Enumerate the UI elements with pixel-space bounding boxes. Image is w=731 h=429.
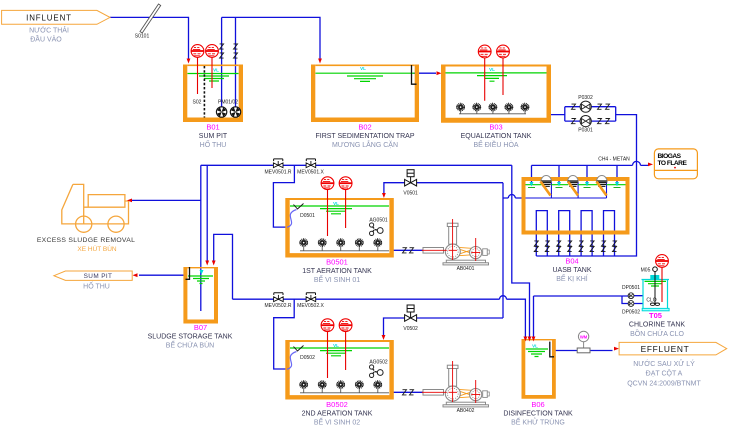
svg-text:BỂ KỊ KHÍ: BỂ KỊ KHÍ — [556, 274, 588, 283]
svg-text:MƯƠNG LẮNG CẶN: MƯƠNG LẮNG CẶN — [332, 140, 398, 149]
svg-text:T05: T05 — [649, 311, 662, 320]
svg-text:TO FLARE: TO FLARE — [658, 160, 688, 167]
svg-text:EFFLUENT: EFFLUENT — [641, 344, 690, 354]
svg-text:B04: B04 — [565, 257, 578, 266]
svg-text:BỂ CHỨA BÙN: BỂ CHỨA BÙN — [166, 341, 214, 350]
svg-text:P0302: P0302 — [578, 95, 593, 101]
svg-text:CH4 - METAN: CH4 - METAN — [598, 157, 630, 163]
svg-text:CHLORINE TANK: CHLORINE TANK — [629, 322, 685, 329]
svg-text:B01: B01 — [206, 123, 219, 132]
svg-text:CLO: CLO — [646, 298, 656, 304]
svg-text:B0502: B0502 — [326, 400, 348, 409]
svg-text:AG0502: AG0502 — [369, 360, 388, 366]
svg-text:B0501: B0501 — [326, 258, 348, 267]
svg-text:S02: S02 — [193, 100, 202, 106]
svg-text:AB0401: AB0401 — [457, 266, 475, 272]
svg-text:PM01/02: PM01/02 — [218, 100, 238, 106]
svg-text:ĐẦU VÀO: ĐẦU VÀO — [30, 34, 62, 44]
svg-text:VL: VL — [360, 66, 366, 71]
svg-text:DP0502: DP0502 — [622, 310, 640, 316]
svg-text:M05: M05 — [641, 268, 651, 274]
svg-text:AB0402: AB0402 — [457, 408, 475, 414]
svg-text:VL: VL — [213, 68, 219, 73]
svg-text:VL: VL — [333, 201, 339, 206]
svg-text:NƯỚC THẢI: NƯỚC THẢI — [29, 26, 69, 35]
svg-text:B03: B03 — [489, 123, 502, 132]
svg-text:BIOGAS: BIOGAS — [658, 153, 682, 160]
svg-text:BỒN CHỨA CLO: BỒN CHỨA CLO — [630, 328, 684, 338]
svg-text:MEV0502.X: MEV0502.X — [297, 303, 324, 309]
svg-text:S0101: S0101 — [135, 34, 150, 40]
svg-text:B06: B06 — [531, 400, 544, 409]
svg-text:ĐẠT CỘT A: ĐẠT CỘT A — [646, 369, 683, 378]
svg-text:EXCESS SLUDGE REMOVAL: EXCESS SLUDGE REMOVAL — [37, 237, 135, 244]
svg-text:DISINFECTION TANK: DISINFECTION TANK — [503, 411, 573, 418]
svg-text:EQUALIZATION TANK: EQUALIZATION TANK — [461, 133, 532, 140]
svg-text:NƯỚC SAU XỬ LÝ: NƯỚC SAU XỬ LÝ — [633, 359, 695, 368]
svg-text:BỂ VI SINH 02: BỂ VI SINH 02 — [314, 418, 360, 427]
svg-text:HỐ THU: HỐ THU — [200, 139, 227, 149]
svg-text:D0502: D0502 — [300, 355, 315, 361]
svg-text:V0502: V0502 — [403, 326, 418, 332]
svg-text:2ND AERATION TANK: 2ND AERATION TANK — [302, 411, 373, 418]
svg-text:MEV0501.R: MEV0501.R — [265, 169, 292, 175]
svg-text:INFLUENT: INFLUENT — [26, 13, 72, 22]
svg-text:MEV0501.X: MEV0501.X — [297, 169, 324, 175]
svg-text:BỂ KHỬ TRÙNG: BỂ KHỬ TRÙNG — [511, 418, 565, 427]
svg-text:BỂ ĐIỀU HÒA: BỂ ĐIỀU HÒA — [473, 139, 518, 149]
svg-text:SUM PIT: SUM PIT — [199, 133, 228, 140]
svg-text:DP0501: DP0501 — [622, 285, 640, 291]
svg-text:MEV0502.R: MEV0502.R — [265, 303, 292, 309]
svg-text:HỐ THU: HỐ THU — [83, 281, 110, 291]
svg-text:B07: B07 — [194, 323, 207, 332]
svg-text:AG0501: AG0501 — [369, 218, 388, 224]
svg-text:QCVN 24:2009/BTNMT: QCVN 24:2009/BTNMT — [627, 381, 701, 388]
svg-text:VL: VL — [489, 67, 495, 72]
svg-text:UASB TANK: UASB TANK — [552, 267, 591, 274]
svg-text:P0301: P0301 — [578, 128, 593, 134]
svg-text:D0501: D0501 — [300, 213, 315, 219]
svg-text:B02: B02 — [358, 123, 371, 132]
svg-text:FIRST SEDIMENTATION TRAP: FIRST SEDIMENTATION TRAP — [315, 133, 414, 140]
svg-text:VL: VL — [532, 344, 538, 349]
svg-text:BỂ VI SINH 01: BỂ VI SINH 01 — [314, 275, 360, 284]
svg-text:1ST AERATION TANK: 1ST AERATION TANK — [302, 268, 372, 275]
svg-text:VL: VL — [333, 343, 339, 348]
svg-text:WM: WM — [580, 335, 588, 340]
svg-text:SUM PIT: SUM PIT — [84, 273, 113, 280]
svg-text:XE HÚT BÙN: XE HÚT BÙN — [77, 244, 117, 253]
svg-text:V0501: V0501 — [403, 191, 418, 197]
svg-text:SLUDGE STORAGE TANK: SLUDGE STORAGE TANK — [148, 334, 233, 341]
